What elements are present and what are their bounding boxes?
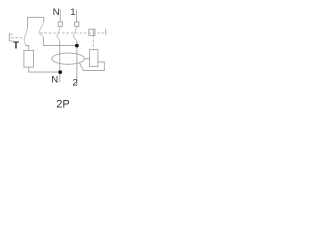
svg-text:N: N [51, 75, 58, 86]
push button actuator bracket T [9, 34, 13, 41]
svg-text:1: 1 [70, 7, 75, 18]
wire resistor bottom to pole N junction [29, 67, 61, 72]
terminal square N top [58, 22, 62, 26]
button actuator dashed link [11, 37, 24, 39]
wire aux contact to pole 1 junction [44, 38, 77, 46]
trip mechanism square [89, 29, 95, 35]
wire test button top link [28, 17, 44, 28]
switch blade pole N [57, 26, 61, 41]
wire pole N conductor down [59, 41, 61, 83]
svg-text:N: N [53, 7, 60, 18]
mechanical link dashed [40, 32, 105, 34]
switch blade pole 1 [73, 26, 77, 41]
trip relay coil [90, 50, 98, 67]
auxiliary contact blade [39, 22, 44, 37]
svg-text:2P: 2P [56, 99, 69, 111]
wire relay return to toroid [79, 62, 104, 71]
test button contact blade [24, 28, 28, 46]
wire pole 1 conductor down [76, 41, 78, 85]
junction dot pole 1 test wire [75, 44, 79, 48]
wire button to resistor top [26, 46, 29, 51]
wire toroid to trip relay [84, 58, 89, 60]
junction dot pole N resistor return [58, 70, 62, 74]
svg-text:2: 2 [72, 77, 77, 88]
node N top terminal lead [59, 10, 61, 23]
terminal square 1 top [75, 22, 79, 26]
trip square to relay dashed link [92, 36, 94, 50]
svg-text:T: T [13, 40, 19, 51]
toroid current transformer [52, 53, 85, 64]
node 1 top terminal lead [76, 10, 78, 23]
manual operator bar [105, 29, 107, 35]
trip mechanism internal line [92, 29, 94, 35]
resistor R test [24, 50, 34, 67]
